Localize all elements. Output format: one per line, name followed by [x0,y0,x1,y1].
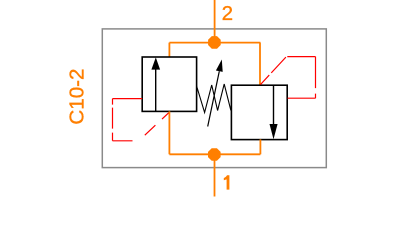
pilot wire left horizontal [113,98,143,100]
pilot line left (dashed red) [113,99,169,142]
adjustment arrow [208,60,223,127]
svg-text:2: 2 [222,2,233,25]
flow arrow up (left envelope) [151,57,160,111]
wire top-left vertical drop [168,43,170,57]
svg-text:C10-2: C10-2 [66,69,89,125]
wire top horizontal [169,42,260,44]
pilot line right (dashed red) [260,57,315,99]
pilot wire right vertical [315,57,317,99]
pilot wire right bottom horizontal [288,97,316,99]
valve envelope left (open position) [142,57,196,111]
node junction bottom [208,148,221,161]
pilot wire left bottom horizontal [113,140,139,142]
pilot wire left diagonal [138,113,169,142]
pilot wire right diagonal [260,57,286,85]
spring [197,84,231,113]
valve body boundary rectangle [102,29,326,168]
wire port 2 vertical [214,0,216,42]
node junction top [208,36,221,49]
valve envelope right (closed position) [231,85,287,139]
port label 1 [224,175,230,189]
flow arrow down (right envelope) [270,85,278,139]
wire bottom horizontal [169,153,260,155]
wire port 1 vertical [214,154,216,196]
pilot wire left vertical [112,99,114,141]
wire bottom-right vertical [259,139,261,154]
wire bottom-left vertical [168,111,170,154]
pilot wire right top horizontal [287,56,315,58]
wire top-right vertical drop [259,43,261,86]
